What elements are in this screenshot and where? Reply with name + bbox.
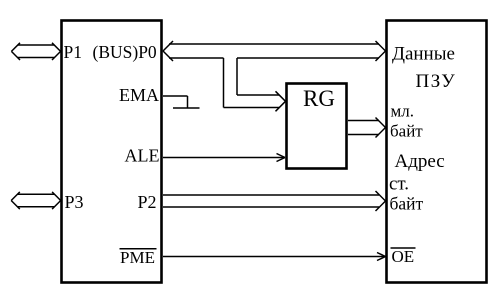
label Адрес: [395, 151, 445, 172]
pin label (BUS)P0: [93, 42, 157, 62]
svg-text:байт: байт: [390, 122, 423, 141]
svg-text:EMA: EMA: [119, 85, 159, 105]
svg-text:P2: P2: [138, 192, 157, 212]
microcontroller block U1: [62, 21, 162, 283]
pin label PME (active low, overline): [120, 248, 157, 267]
wire ALE to RG clock: [163, 154, 285, 162]
svg-text:OE: OE: [392, 247, 415, 266]
svg-text:Данные: Данные: [392, 44, 455, 65]
pin label Данные: [392, 44, 455, 65]
svg-text:P3: P3: [65, 192, 84, 212]
svg-text:Адрес: Адрес: [395, 151, 445, 172]
pin label P1: [64, 42, 82, 62]
bus P2 to ПЗУ high address byte (hollow arrow): [163, 191, 386, 211]
ROM block ПЗУ: [387, 21, 487, 283]
EMA strobe symbol: [163, 96, 200, 108]
svg-text:RG: RG: [303, 86, 335, 111]
port arrow P3 (bidirectional): [11, 192, 61, 209]
pin label мл. байт: [390, 102, 423, 141]
pin label ст. байт: [389, 174, 424, 214]
bus RG to ПЗУ low address byte (hollow arrow): [348, 118, 386, 138]
svg-text:байт: байт: [390, 194, 424, 214]
pin label P2: [138, 192, 157, 212]
pin label ALE: [125, 146, 160, 166]
data bus P0 to Данные (bidirectional hollow arrow): [163, 41, 386, 61]
svg-text:(BUS)P0: (BUS)P0: [93, 42, 157, 62]
pin label OE (active low, overline): [391, 247, 416, 266]
bus branch to register RG inputs: [224, 58, 286, 111]
wire PME to OE: [163, 253, 386, 261]
register RG: [287, 84, 347, 169]
svg-text:мл.: мл.: [391, 102, 415, 121]
svg-text:ПЗУ: ПЗУ: [416, 71, 457, 92]
svg-text:ст.: ст.: [389, 174, 409, 195]
pin label EMA: [119, 85, 159, 105]
svg-text:PME: PME: [120, 248, 155, 267]
svg-text:P1: P1: [64, 42, 82, 62]
port arrow P1 (bidirectional): [11, 43, 60, 60]
block title ПЗУ: [416, 71, 457, 92]
svg-text:ALE: ALE: [125, 146, 160, 166]
pin label P3: [65, 192, 84, 212]
